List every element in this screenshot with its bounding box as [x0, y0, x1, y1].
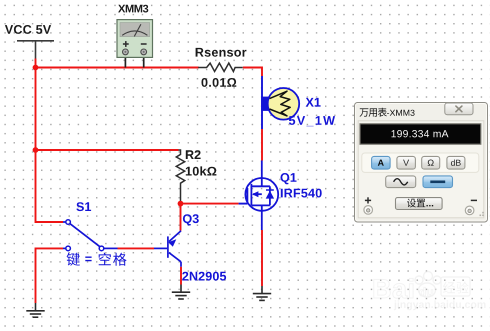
- label R2: [186, 150, 201, 159]
- transistor Q1 IRF540: [245, 161, 278, 231]
- wire Rsensor to lamp corner: [243, 68, 262, 77]
- button Ohm: [422, 156, 440, 169]
- wire gate node: [181, 203, 239, 205]
- button dB: [447, 156, 465, 169]
- terminal minus: [471, 199, 477, 201]
- value IRF540: [281, 189, 322, 198]
- resistor Rsensor: [198, 63, 243, 71]
- multimeter panel window: [355, 103, 488, 223]
- value 5V_1W: [289, 116, 335, 126]
- close button: [445, 103, 473, 115]
- button AC: [386, 176, 416, 188]
- resistor R2: [176, 150, 184, 201]
- panel title: [360, 108, 387, 117]
- wire lamp to Q1: [261, 129, 263, 161]
- ground (S1): [26, 303, 44, 317]
- display readout: [360, 124, 481, 144]
- terminal plus: [365, 197, 371, 203]
- label Q1: [281, 173, 297, 184]
- wire top node to Rsensor: [36, 67, 199, 69]
- button V: [397, 156, 416, 169]
- wire S1 lower throw to ground: [36, 248, 64, 303]
- wire Q3 collector to ground: [180, 267, 182, 285]
- lamp X1: [261, 88, 299, 120]
- label S1: [76, 202, 91, 211]
- mode buttons group: [362, 153, 479, 172]
- label Q3: [183, 214, 199, 225]
- ground (Q3): [172, 285, 190, 300]
- junction node under R2: [178, 201, 184, 207]
- power VCC: [17, 41, 54, 59]
- label key=space: [67, 253, 80, 266]
- ground (Q1): [253, 286, 271, 300]
- multimeter XMM3 label: [118, 5, 148, 13]
- wire node to Q3 emitter: [180, 204, 182, 231]
- wire R2 branch: [36, 149, 179, 151]
- watermark: [374, 272, 486, 311]
- wire VCC rail: [36, 59, 64, 223]
- wire lamp leads: [261, 76, 263, 129]
- resize grip: [480, 212, 484, 216]
- button settings: [396, 198, 443, 210]
- label Rsensor: [196, 48, 247, 57]
- junction R2 branch: [33, 147, 39, 153]
- junction top-left: [33, 65, 39, 71]
- switch S1: [63, 222, 118, 248]
- button A (selected): [372, 156, 391, 169]
- button DC (selected): [423, 176, 453, 188]
- value 10kohm: [186, 166, 217, 175]
- value 2N2905: [182, 272, 226, 281]
- label X1: [306, 98, 321, 107]
- wire S1 to Q3 base: [118, 247, 155, 249]
- wire Q1 source to ground: [261, 230, 263, 286]
- value 0.01ohm: [202, 78, 237, 87]
- multimeter XMM3 body: [117, 20, 153, 68]
- transistor Q3 2N2905: [154, 231, 181, 267]
